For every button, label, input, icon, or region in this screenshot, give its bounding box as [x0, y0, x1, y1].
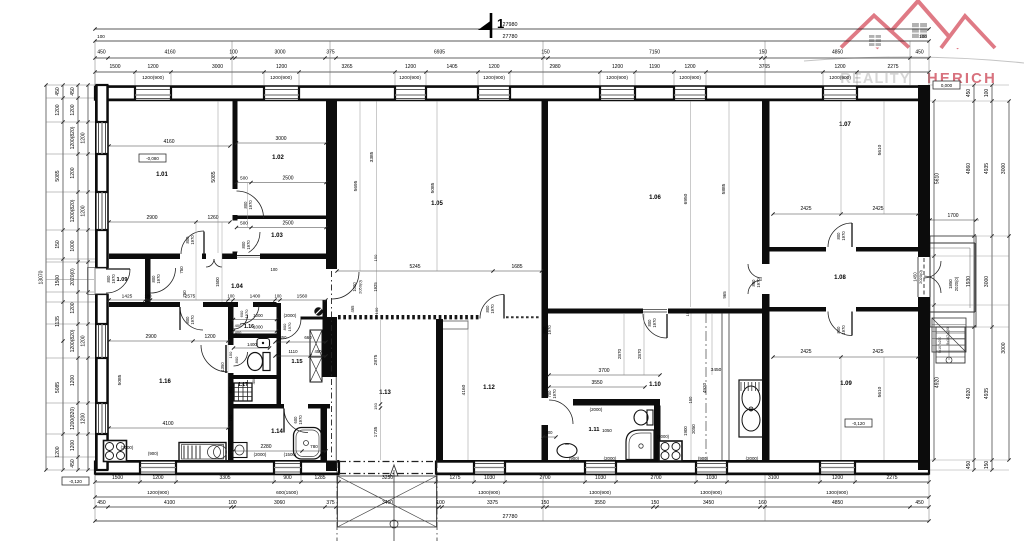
svg-text:1425: 1425: [122, 294, 133, 300]
svg-text:1400: 1400: [250, 294, 261, 300]
svg-text:1200: 1200: [70, 302, 76, 313]
svg-text:1970: 1970: [190, 315, 195, 325]
svg-text:1700: 1700: [947, 213, 958, 219]
svg-text:(2000): (2000): [604, 456, 617, 461]
svg-text:150: 150: [541, 50, 550, 56]
svg-text:450: 450: [55, 87, 61, 96]
svg-text:3000: 3000: [274, 50, 285, 56]
svg-text:4160: 4160: [163, 139, 174, 145]
svg-text:2425: 2425: [800, 206, 811, 212]
svg-text:1300(900): 1300(900): [589, 490, 611, 496]
svg-text:750: 750: [179, 266, 184, 274]
svg-text:1970: 1970: [156, 274, 161, 284]
svg-text:1275: 1275: [449, 475, 460, 481]
svg-text:450: 450: [251, 377, 256, 384]
svg-text:1200: 1200: [81, 205, 87, 216]
svg-text:2050(0): 2050(0): [358, 279, 363, 293]
svg-text:500: 500: [240, 176, 248, 181]
svg-text:3000: 3000: [275, 136, 286, 142]
svg-text:1200(820): 1200(820): [70, 126, 76, 149]
svg-text:5245: 5245: [409, 264, 420, 270]
svg-text:1200: 1200: [70, 375, 76, 386]
svg-text:2500: 2500: [282, 176, 293, 182]
svg-text:5085: 5085: [211, 171, 217, 182]
svg-text:1200(900): 1200(900): [679, 75, 701, 81]
svg-text:1970: 1970: [756, 278, 761, 288]
svg-text:3305: 3305: [219, 475, 230, 481]
svg-text:1500: 1500: [112, 475, 123, 481]
svg-text:4935: 4935: [984, 388, 990, 399]
svg-text:0,000: 0,000: [941, 83, 953, 88]
svg-text:5085: 5085: [55, 382, 61, 393]
svg-text:2500: 2500: [282, 221, 293, 227]
svg-text:1400: 1400: [247, 342, 257, 347]
svg-text:1200: 1200: [684, 64, 695, 70]
svg-text:4850: 4850: [832, 500, 843, 506]
svg-text:2425: 2425: [872, 206, 883, 212]
svg-text:1260: 1260: [207, 215, 218, 221]
svg-text:1200(900): 1200(900): [399, 75, 421, 81]
svg-text:750: 750: [182, 290, 187, 298]
svg-text:1970: 1970: [841, 231, 846, 241]
svg-text:780: 780: [310, 444, 318, 449]
svg-text:1135: 1135: [55, 316, 61, 327]
svg-text:1.17: 1.17: [238, 382, 248, 388]
svg-text:450: 450: [315, 349, 323, 354]
svg-text:3450: 3450: [703, 500, 714, 506]
svg-text:1970: 1970: [287, 322, 292, 332]
svg-text:(900): (900): [148, 451, 159, 456]
svg-text:1500: 1500: [215, 277, 220, 287]
svg-text:100: 100: [229, 50, 238, 56]
svg-text:1200(900): 1200(900): [606, 75, 628, 81]
svg-text:1000: 1000: [352, 282, 357, 292]
svg-text:4160: 4160: [461, 384, 467, 395]
svg-text:4920: 4920: [966, 388, 972, 399]
svg-text:1200: 1200: [204, 334, 215, 340]
svg-text:150: 150: [759, 50, 768, 56]
svg-text:1000: 1000: [253, 325, 263, 330]
svg-text:3100: 3100: [768, 475, 779, 481]
svg-text:1970: 1970: [190, 235, 195, 245]
svg-text:2275: 2275: [887, 64, 898, 70]
svg-text:1030: 1030: [595, 475, 606, 481]
svg-text:1.05: 1.05: [431, 201, 443, 207]
svg-text:1.16: 1.16: [159, 379, 171, 385]
svg-text:1200: 1200: [834, 64, 845, 70]
svg-text:4920: 4920: [702, 382, 707, 393]
svg-text:1.14: 1.14: [271, 429, 283, 435]
svg-text:2425: 2425: [872, 349, 883, 355]
svg-text:(2000): (2000): [284, 313, 297, 318]
svg-text:965: 965: [722, 291, 727, 299]
svg-text:1200: 1200: [81, 132, 87, 143]
svg-text:5695: 5695: [353, 180, 359, 191]
svg-text:1970: 1970: [490, 304, 495, 314]
svg-text:1110: 1110: [288, 349, 298, 354]
svg-text:1.10: 1.10: [649, 382, 661, 388]
svg-text:2980: 2980: [549, 64, 560, 70]
svg-text:3000: 3000: [984, 276, 990, 287]
svg-text:1970: 1970: [552, 389, 557, 399]
svg-text:1030: 1030: [484, 475, 495, 481]
svg-text:1300(900): 1300(900): [826, 490, 848, 496]
svg-text:2020(0): 2020(0): [954, 276, 959, 291]
svg-text:1925: 1925: [373, 282, 378, 292]
svg-text:1200: 1200: [147, 64, 158, 70]
svg-text:3765: 3765: [759, 64, 770, 70]
svg-text:5610: 5610: [935, 173, 941, 184]
svg-text:100: 100: [275, 294, 283, 299]
svg-text:4100: 4100: [164, 500, 175, 506]
svg-text:1000: 1000: [70, 240, 76, 251]
svg-text:500: 500: [546, 430, 554, 435]
svg-text:450: 450: [70, 459, 76, 468]
svg-text:4935: 4935: [984, 163, 990, 174]
svg-text:(900): (900): [569, 456, 580, 461]
svg-text:(900): (900): [698, 456, 709, 461]
svg-text:1200(900): 1200(900): [142, 75, 164, 81]
svg-text:1.06: 1.06: [649, 195, 661, 201]
svg-text:4100: 4100: [162, 421, 173, 427]
svg-text:150: 150: [55, 240, 61, 249]
svg-text:1405: 1405: [446, 64, 457, 70]
svg-text:150: 150: [373, 254, 378, 261]
svg-text:3700: 3700: [598, 368, 609, 374]
svg-text:1.03: 1.03: [271, 233, 283, 239]
svg-text:6935: 6935: [434, 50, 445, 56]
svg-text:1200: 1200: [70, 104, 76, 115]
svg-text:1970: 1970: [248, 200, 253, 210]
svg-text:400: 400: [235, 323, 242, 328]
svg-text:1560: 1560: [297, 294, 308, 300]
svg-text:1930: 1930: [966, 276, 972, 287]
svg-text:450: 450: [915, 50, 924, 56]
svg-text:1735: 1735: [373, 426, 379, 437]
svg-text:1200: 1200: [276, 64, 287, 70]
svg-text:1.02: 1.02: [272, 155, 284, 161]
svg-text:450: 450: [966, 461, 972, 470]
svg-text:150: 150: [651, 500, 660, 506]
svg-text:375: 375: [326, 500, 335, 506]
svg-text:450: 450: [915, 500, 924, 506]
svg-text:27980: 27980: [503, 22, 518, 28]
svg-text:5085: 5085: [55, 170, 61, 181]
svg-text:100: 100: [97, 34, 105, 39]
svg-text:1350: 1350: [220, 362, 225, 372]
svg-text:3375: 3375: [487, 500, 498, 506]
svg-text:1200: 1200: [405, 64, 416, 70]
svg-text:150: 150: [541, 500, 550, 506]
svg-text:1050: 1050: [602, 428, 612, 433]
svg-text:5085: 5085: [430, 182, 436, 193]
svg-text:800: 800: [234, 356, 239, 363]
svg-text:150: 150: [373, 402, 378, 409]
svg-text:150: 150: [688, 396, 693, 404]
svg-text:1.09: 1.09: [117, 277, 128, 283]
svg-text:1200: 1200: [55, 446, 61, 457]
svg-text:1200: 1200: [488, 64, 499, 70]
svg-text:1.01: 1.01: [156, 172, 168, 178]
svg-text:3000: 3000: [212, 64, 223, 70]
svg-text:2020(0): 2020(0): [70, 268, 76, 286]
svg-text:450: 450: [97, 50, 106, 56]
svg-text:27780: 27780: [503, 514, 518, 520]
svg-text:2280: 2280: [260, 444, 271, 450]
svg-text:1970: 1970: [246, 240, 251, 250]
svg-text:5885: 5885: [721, 183, 727, 194]
svg-text:450: 450: [70, 87, 76, 96]
svg-text:400: 400: [235, 330, 242, 335]
svg-text:1.09: 1.09: [840, 381, 852, 387]
svg-text:1.04: 1.04: [231, 284, 243, 290]
svg-text:1500: 1500: [55, 275, 61, 286]
svg-text:600(1500): 600(1500): [276, 490, 298, 496]
svg-text:3550: 3550: [591, 380, 602, 386]
svg-text:4850: 4850: [832, 50, 843, 56]
svg-text:-0,120: -0,120: [69, 479, 82, 484]
svg-text:1190: 1190: [649, 64, 660, 70]
svg-text:4920: 4920: [935, 377, 941, 388]
svg-text:(2000): (2000): [657, 434, 670, 439]
svg-text:1000: 1000: [253, 313, 263, 318]
svg-text:3000: 3000: [1001, 342, 1007, 353]
svg-text:100: 100: [436, 500, 445, 506]
svg-text:100: 100: [984, 89, 990, 98]
svg-text:1685: 1685: [511, 264, 522, 270]
svg-text:2900: 2900: [145, 334, 156, 340]
svg-text:450: 450: [280, 335, 288, 340]
svg-text:1200: 1200: [70, 167, 76, 178]
svg-text:1200: 1200: [81, 335, 87, 346]
svg-text:100: 100: [374, 307, 379, 314]
svg-text:375: 375: [326, 50, 335, 56]
svg-text:100: 100: [271, 267, 279, 272]
svg-text:1500: 1500: [109, 64, 120, 70]
svg-text:9x167x290: 9x167x290: [946, 327, 950, 345]
svg-text:1970: 1970: [652, 318, 657, 328]
svg-text:1200: 1200: [152, 475, 163, 481]
svg-text:100: 100: [228, 294, 236, 299]
svg-text:2870: 2870: [637, 348, 642, 359]
svg-text:1200: 1200: [832, 475, 843, 481]
svg-text:1970: 1970: [298, 415, 303, 425]
svg-text:(1500): (1500): [284, 452, 297, 457]
svg-text:2275: 2275: [886, 475, 897, 481]
svg-text:(2000): (2000): [121, 445, 134, 450]
svg-text:13070: 13070: [39, 270, 45, 284]
svg-text:2425: 2425: [800, 349, 811, 355]
svg-text:1030: 1030: [706, 475, 717, 481]
svg-text:3265: 3265: [341, 64, 352, 70]
svg-text:100: 100: [145, 294, 153, 299]
svg-text:660: 660: [304, 335, 312, 340]
svg-text:9x167x290: 9x167x290: [938, 337, 942, 354]
svg-text:2050: 2050: [691, 424, 696, 434]
svg-text:900: 900: [228, 386, 233, 394]
svg-text:1200(820): 1200(820): [70, 329, 76, 352]
svg-text:1900: 1900: [683, 426, 688, 436]
svg-text:(2000): (2000): [590, 407, 603, 412]
svg-text:900: 900: [283, 475, 292, 481]
svg-text:2870: 2870: [617, 348, 622, 359]
svg-text:100: 100: [228, 500, 237, 506]
svg-text:5610: 5610: [877, 144, 883, 155]
svg-text:150: 150: [228, 351, 233, 358]
svg-text:150: 150: [228, 414, 233, 421]
svg-text:1.08: 1.08: [834, 275, 846, 281]
svg-text:7150: 7150: [649, 50, 660, 56]
svg-text:2020(0): 2020(0): [918, 269, 923, 283]
svg-text:2875: 2875: [373, 354, 379, 365]
svg-text:-0,120: -0,120: [852, 421, 865, 426]
svg-text:160: 160: [758, 500, 767, 506]
svg-text:3060: 3060: [274, 500, 285, 506]
svg-text:1.16: 1.16: [244, 324, 254, 330]
svg-text:1200: 1200: [70, 440, 76, 451]
svg-text:1.13: 1.13: [379, 390, 391, 396]
svg-text:4160: 4160: [164, 50, 175, 56]
svg-text:1200(900): 1200(900): [829, 75, 851, 81]
svg-text:3385: 3385: [369, 151, 375, 162]
svg-text:450: 450: [97, 500, 106, 506]
svg-text:-0,080: -0,080: [146, 156, 159, 161]
svg-text:1200: 1200: [55, 104, 61, 115]
svg-text:4860: 4860: [966, 163, 972, 174]
svg-text:1.11: 1.11: [589, 427, 601, 433]
svg-text:150: 150: [685, 309, 690, 316]
svg-text:1850: 1850: [948, 279, 953, 289]
svg-text:150: 150: [984, 461, 990, 470]
svg-text:1200(900): 1200(900): [147, 490, 169, 496]
svg-text:6950: 6950: [683, 193, 689, 204]
svg-text:1970: 1970: [111, 274, 116, 284]
svg-text:1200: 1200: [81, 413, 87, 424]
svg-text:1.12: 1.12: [483, 385, 495, 391]
svg-text:1200(900): 1200(900): [270, 75, 292, 81]
svg-text:3000: 3000: [1001, 163, 1007, 174]
svg-text:3450: 3450: [711, 367, 722, 373]
svg-text:1285: 1285: [314, 475, 325, 481]
svg-text:2900: 2900: [146, 215, 157, 221]
svg-text:1970: 1970: [841, 325, 846, 335]
svg-text:27780: 27780: [503, 34, 518, 40]
svg-text:1970: 1970: [244, 309, 249, 319]
svg-text:1200: 1200: [612, 64, 623, 70]
svg-text:100: 100: [919, 34, 927, 39]
svg-text:1.15: 1.15: [291, 359, 303, 365]
svg-text:1: 1: [497, 16, 504, 31]
svg-text:2700: 2700: [650, 475, 661, 481]
svg-text:1200(820): 1200(820): [70, 407, 76, 430]
svg-text:2700: 2700: [539, 475, 550, 481]
svg-text:(2000): (2000): [254, 452, 267, 457]
svg-text:5610: 5610: [877, 386, 883, 397]
svg-text:1970: 1970: [547, 325, 552, 335]
svg-text:1200(820): 1200(820): [70, 199, 76, 222]
svg-text:465: 465: [350, 305, 355, 313]
svg-text:1200(900): 1200(900): [483, 75, 505, 81]
svg-text:500: 500: [240, 221, 248, 226]
svg-text:450: 450: [966, 89, 972, 98]
svg-text:1300(900): 1300(900): [700, 490, 722, 496]
svg-text:(2000): (2000): [746, 456, 759, 461]
svg-text:3550: 3550: [594, 500, 605, 506]
svg-text:5085: 5085: [117, 374, 123, 385]
svg-text:1300(900): 1300(900): [478, 490, 500, 496]
svg-text:1450: 1450: [913, 272, 918, 282]
